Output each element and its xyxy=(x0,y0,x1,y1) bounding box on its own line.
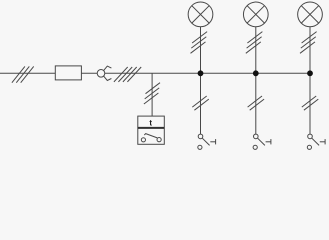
conductor marks (2 wires) below junction E3 xyxy=(302,96,319,110)
wire: branch to timer xyxy=(151,73,153,116)
pushbutton S2 xyxy=(253,134,271,149)
node: junction lamp E1 xyxy=(198,70,204,76)
node: junction lamp E3 xyxy=(307,70,313,76)
conductor marks (3 wires) lamp E2 xyxy=(246,32,263,54)
timer K1 divider xyxy=(138,127,165,129)
node: junction lamp E2 xyxy=(253,70,259,76)
conductor marks (3 wires) on timer branch xyxy=(144,83,160,104)
wire: lamp E2 drop xyxy=(255,27,257,134)
timer K1 contact xyxy=(141,134,161,142)
svg-text:t: t xyxy=(149,118,152,127)
fuse F1 xyxy=(55,66,81,80)
switch S0 (control switch) xyxy=(97,66,111,80)
wire: lamp E3 drop xyxy=(309,27,311,134)
timer K1 (staircase time switch) box xyxy=(138,116,165,144)
pushbutton S1 xyxy=(198,134,216,149)
conductor marks (2 wires) below junction E1 xyxy=(192,96,209,110)
lamp E1 xyxy=(188,2,213,27)
wire: lamp E1 drop xyxy=(200,27,202,134)
conductor marks (3 wires) on supply xyxy=(12,66,34,82)
conductor marks (3 wires) lamp E3 xyxy=(300,32,317,54)
conductor marks (3 wires) lamp E1 xyxy=(191,32,208,54)
conductor marks (2 wires) below junction E2 xyxy=(248,96,265,110)
wire: main supply bus xyxy=(0,72,310,74)
pushbutton S3 xyxy=(307,134,325,149)
lamp E3 xyxy=(298,2,323,27)
conductor marks (4 wires) after switch xyxy=(114,67,141,82)
lamp E2 xyxy=(243,2,268,27)
